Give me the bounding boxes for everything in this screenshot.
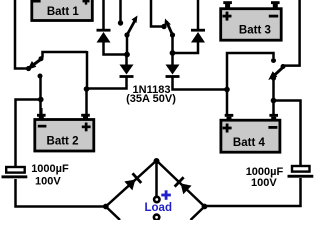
wire S1 lower contact down (39, 76, 42, 100)
switch S2 arm (open) (127, 20, 136, 36)
node J1 dot (84, 86, 90, 92)
node J4 dot (271, 98, 277, 104)
switch S3 arrowhead (165, 19, 172, 26)
bridge diamond right upper edge (157, 161, 205, 207)
svg-text:Batt 3: Batt 3 (239, 24, 271, 36)
wire J1 down to Batt2 plus post (85, 89, 88, 114)
switch S2 arrowhead (132, 16, 138, 24)
wire J2 left to cap rail (16, 100, 41, 167)
svg-text:Batt 1: Batt 1 (47, 6, 80, 18)
bridge diode D6 on right edge (pointing to apex) (175, 177, 192, 194)
svg-text:100V: 100V (35, 176, 61, 188)
switch S1 arm (29, 59, 42, 68)
switch S2 pivot dot (124, 32, 129, 37)
wire C1 bottom to bus (16, 179, 106, 207)
battery Batt 2 (35, 108, 94, 151)
bridge apex node dot (154, 158, 160, 164)
switch S4 pivot dot (271, 75, 276, 80)
capacitor C1 bottom plate (2, 175, 28, 178)
switch S4 upper contact dot (271, 58, 276, 63)
bridge diamond left lower edge (106, 207, 120, 221)
wire right rail from top to S4 contact (284, 0, 300, 66)
wire apex to load terminal (155, 161, 158, 197)
node J3 dot (224, 87, 230, 93)
diode D3 1N1183 left (pointing down) (120, 55, 134, 77)
switch S3 fixed contact dot (161, 24, 166, 29)
battery Batt 1 (32, 0, 93, 21)
capacitor C1 top plate (6, 167, 25, 173)
wire S4 pivot down to node J4 (272, 78, 275, 101)
switch S3 arm (closed) (167, 22, 173, 36)
svg-text:Batt 2: Batt 2 (47, 135, 79, 147)
bridge diode D5 on left edge (pointing to apex) (124, 173, 141, 190)
wire bus corner down to node J1 (86, 51, 89, 89)
wire N1 up to switch S2 pivot (126, 35, 129, 55)
switch S1 upper contact dot (39, 56, 44, 61)
node N2 dot (170, 50, 176, 56)
wire J4 down to Batt4 minus post (272, 101, 275, 115)
switch S4 arrowhead (268, 71, 277, 80)
wire Batt4 plus rail (staple) (227, 53, 274, 114)
diamond right corner dot (202, 204, 208, 210)
wire S3 pivot down to node N2 (171, 35, 174, 53)
switch S2 fixed contact dot (118, 20, 123, 25)
svg-text:Batt 4: Batt 4 (233, 137, 266, 149)
diode D4 1N1183 right (pointing down) (166, 65, 180, 77)
svg-text:1000µF: 1000µF (31, 163, 69, 175)
switch S1 arrowhead (27, 61, 36, 70)
diode D1 left charge diode (pointing up) (97, 0, 111, 43)
wire N1 left to diode D1 (104, 42, 128, 55)
wire J2 down to Batt2 minus post (39, 100, 42, 115)
wire N2 right to diode D2 (173, 42, 199, 53)
wire S1 upper contact stub (43, 52, 88, 58)
switch S4 arm (closed to right contact) (271, 67, 284, 79)
svg-text:(35A 50V): (35A 50V) (126, 93, 176, 105)
switch S1 lower contact dot (38, 74, 43, 79)
diode D2 right charge diode (pointing up) (191, 0, 205, 43)
switch S3 pivot dot (170, 32, 175, 37)
wire D4 to node J3 (173, 77, 228, 90)
battery Batt 4 (221, 114, 280, 152)
svg-text:Load: Load (145, 202, 172, 214)
bridge diamond left upper edge (106, 161, 157, 207)
wire left rail top (15, 0, 28, 69)
load terminal bottom circle (154, 215, 159, 220)
load plus sign (161, 190, 171, 200)
svg-text:100V: 100V (251, 177, 277, 189)
wire J4 right to cap rail (274, 101, 301, 166)
bridge diamond right lower edge (191, 207, 205, 221)
wire S3 feed from top (151, 0, 164, 27)
switch S4 second contact dot (281, 64, 286, 69)
battery Batt 3 (221, 1, 282, 40)
load terminal top circle (154, 197, 159, 202)
wire S2 contact to top (119, 0, 122, 23)
diamond left corner dot (103, 204, 109, 210)
wire C2 bottom to bus (205, 178, 301, 206)
node N1 dot (124, 52, 130, 58)
capacitor C2 top plate (292, 166, 310, 172)
node J2 dot (38, 97, 44, 103)
switch S1 pivot dot (26, 66, 31, 71)
capacitor C2 bottom plate (288, 175, 314, 178)
wire N2 down to diode D4 (171, 53, 174, 66)
wire J1 right to diode D3 (87, 77, 127, 89)
